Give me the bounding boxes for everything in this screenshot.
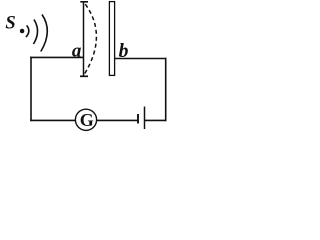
plate a top cap (80, 1, 88, 3)
wire: left vertical (30, 57, 32, 122)
wire: bottom left to galvanometer (30, 119, 75, 121)
wire: galvanometer to battery (96, 119, 137, 121)
source point (dot) (20, 29, 25, 34)
sound wave arc 2 (34, 20, 38, 45)
membrane deflection dashed curve (84, 4, 96, 74)
battery negative plate (short bar) (137, 114, 139, 124)
plate b rectangle (109, 2, 114, 76)
galvanometer G circle (75, 109, 96, 130)
plate a bottom cap (80, 75, 88, 77)
sound wave arc 3 (41, 15, 48, 52)
wire: plate b to right (115, 58, 167, 60)
svg-text:G: G (80, 110, 94, 130)
svg-text:a: a (72, 40, 82, 61)
wire: battery to right vertical (145, 119, 166, 121)
wire: right vertical (165, 58, 167, 121)
sound wave arc 1 (26, 25, 29, 37)
battery positive plate (long bar) (144, 107, 146, 130)
svg-text:S: S (5, 14, 15, 34)
wire: plate a to left (30, 56, 83, 58)
plate a (membrane) vertical line (83, 3, 85, 76)
